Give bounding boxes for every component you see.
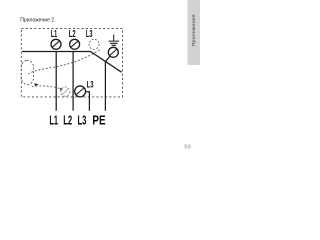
old cable loop (dashed rounded outline) bbox=[21, 61, 33, 85]
screw slot L3 new bbox=[76, 88, 84, 95]
svg-text:L3: L3 bbox=[78, 113, 87, 128]
svg-text:L2: L2 bbox=[63, 113, 72, 128]
ghost terminal (dashed, old screw position) bbox=[61, 87, 70, 96]
terminal L2 bbox=[70, 39, 80, 49]
busbar wire with diagonal to right border bbox=[22, 52, 122, 73]
svg-text:PE: PE bbox=[92, 113, 105, 128]
screw slot L1 bbox=[52, 41, 60, 48]
terminal box outline (dashed) bbox=[21, 29, 122, 97]
terminal L1 bbox=[51, 39, 61, 49]
appendix side tab bbox=[188, 0, 201, 65]
L2 wire bbox=[72, 52, 74, 111]
svg-text:Приложение 2.: Приложение 2. bbox=[20, 17, 56, 23]
PE tap wire from PE terminal down bbox=[105, 56, 109, 110]
svg-text:Приложения: Приложения bbox=[191, 14, 196, 47]
L1 wire bbox=[55, 52, 57, 111]
screw slot PE bbox=[110, 49, 118, 55]
relocation arrowhead bbox=[34, 83, 38, 86]
svg-text:59: 59 bbox=[184, 144, 190, 150]
svg-text:L3: L3 bbox=[86, 29, 93, 40]
svg-text:L1: L1 bbox=[51, 29, 58, 40]
terminal PE bbox=[108, 47, 118, 57]
terminal L3 new position bbox=[75, 86, 86, 97]
screw slot L2 bbox=[71, 41, 79, 48]
relocation arrowhead 2 bbox=[60, 88, 63, 91]
svg-text:L2: L2 bbox=[69, 29, 76, 40]
ghost screw slot bbox=[63, 89, 69, 95]
svg-text:L1: L1 bbox=[49, 113, 58, 128]
PE ground symbol bbox=[109, 35, 120, 46]
terminal L3 old position (dashed ghost) bbox=[89, 39, 99, 49]
relocation arrow curve from old L3 (dashed) bbox=[29, 50, 100, 74]
L3 wire from relocated terminal bbox=[86, 92, 89, 111]
relocation curve to new position (dashed) bbox=[32, 86, 61, 89]
svg-text:L3: L3 bbox=[87, 79, 94, 90]
